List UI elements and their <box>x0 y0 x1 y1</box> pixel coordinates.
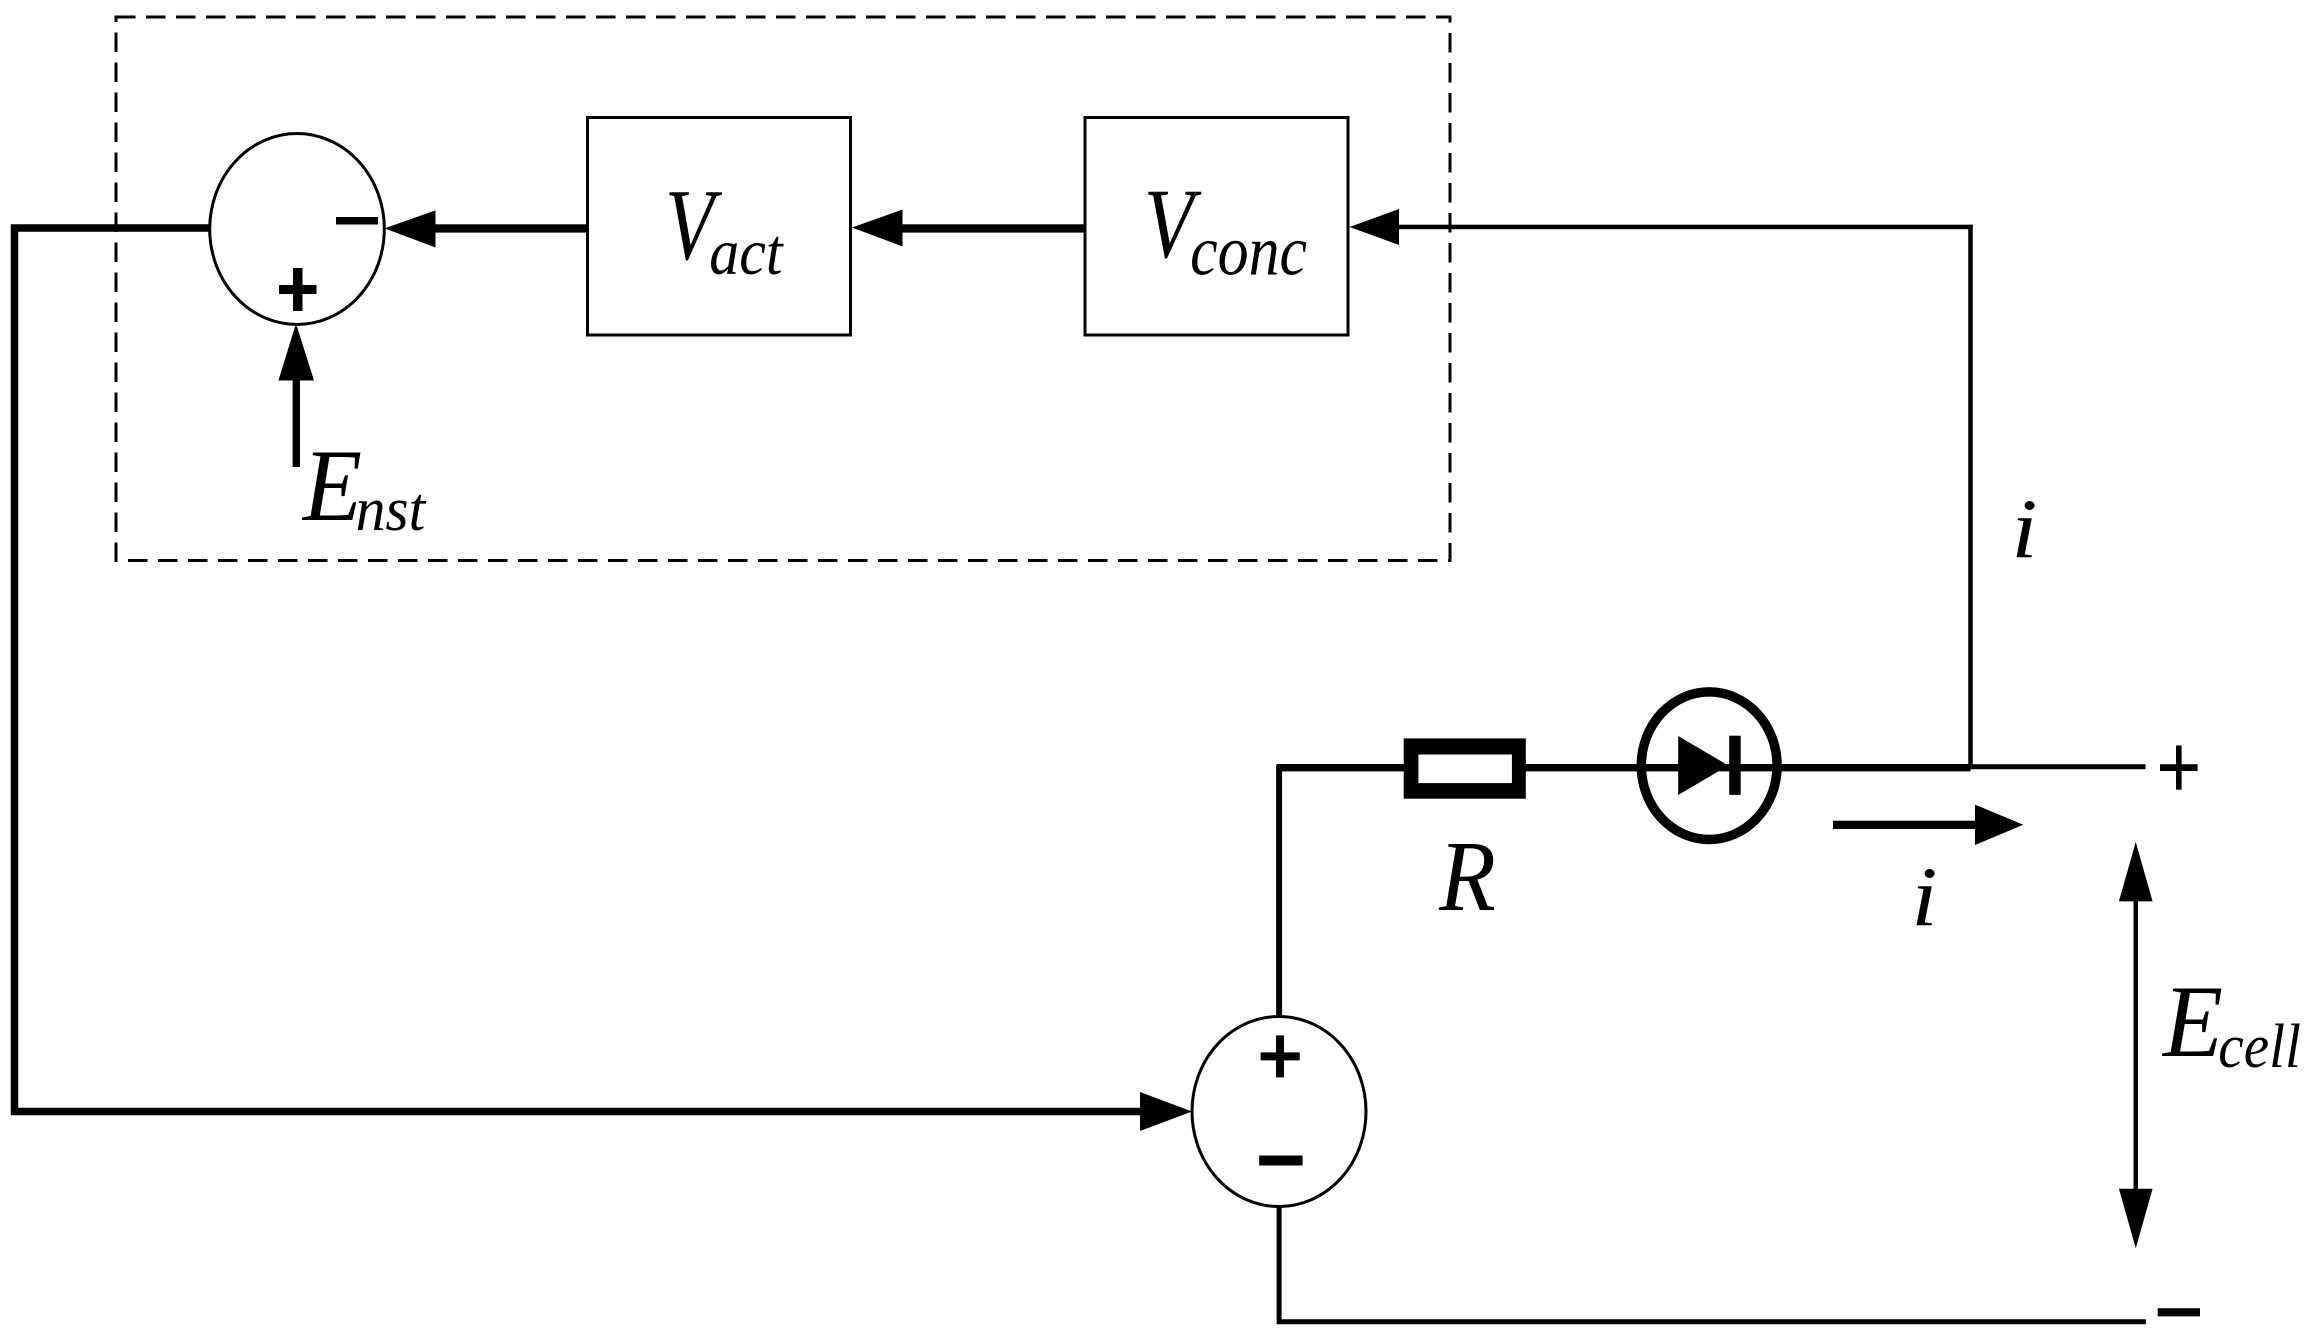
wire vertical current sense line <box>1968 225 1973 767</box>
label V_conc <box>1144 168 1307 290</box>
minus sign in voltage source <box>1259 1156 1302 1166</box>
wire top of cell branch <box>1277 764 1971 771</box>
svg-text:E: E <box>2161 964 2223 1079</box>
diode D <box>1641 692 1777 840</box>
plus sign at summing junction <box>279 268 317 311</box>
arrow current feedback into V_conc <box>1350 209 1973 245</box>
svg-text:i: i <box>1911 850 1937 943</box>
svg-text:cell: cell <box>2218 1012 2301 1081</box>
svg-text:E: E <box>301 428 362 543</box>
current arrow i in cell branch <box>1833 805 2023 845</box>
svg-text:nst: nst <box>356 476 428 545</box>
dashed subsystem box <box>116 17 1450 561</box>
arrow V_act to summing junction <box>385 210 589 247</box>
label V_act <box>665 168 784 288</box>
label E_cell <box>2161 964 2301 1081</box>
voltage source E1 <box>1192 1017 1366 1207</box>
double arrow E_cell <box>2119 842 2153 1248</box>
minus sign at summing junction <box>336 217 378 225</box>
block V_conc <box>1085 118 1348 336</box>
wire source bottom lead and bottom of cell loop <box>1279 1206 2146 1322</box>
svg-text:i: i <box>2011 482 2037 575</box>
svg-text:conc: conc <box>1190 213 1307 291</box>
label i (sensed current) <box>2011 482 2037 575</box>
minus terminal of cell <box>2158 1308 2200 1316</box>
arrow V_conc to V_act <box>852 210 1086 247</box>
block V_act <box>588 118 851 336</box>
arrow E_nst into summing junction <box>278 324 314 468</box>
wire left vertical of cell loop (top lead) <box>1276 766 1282 1017</box>
plus terminal of cell <box>2160 746 2198 790</box>
resistor R <box>1404 738 1526 798</box>
label E_nst <box>301 428 427 544</box>
label R <box>1438 821 1496 932</box>
svg-text:R: R <box>1438 821 1496 932</box>
plus sign in voltage source <box>1261 1035 1300 1077</box>
wire feedback loop from summing junction left around to voltage source <box>15 228 1143 1112</box>
label i (cell current) <box>1911 850 1937 943</box>
svg-text:act: act <box>709 215 784 288</box>
summing junction S1 <box>210 134 385 325</box>
arrowhead into voltage source E1 <box>1140 1092 1192 1131</box>
